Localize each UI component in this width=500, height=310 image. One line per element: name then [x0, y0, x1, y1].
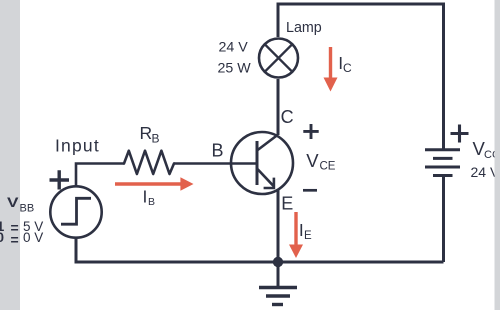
minus sign VCE: [303, 189, 317, 192]
junction node dot: [273, 257, 283, 267]
wire bottom rail: [76, 238, 444, 262]
svg-text:V: V: [7, 195, 19, 210]
right gray sidebar: [495, 0, 500, 310]
collector lead: [257, 135, 278, 151]
wire top: lamp branch to Vcc: [278, 4, 444, 150]
svg-text:I: I: [143, 186, 148, 206]
left gray sidebar: [0, 0, 20, 310]
svg-text:0: 0: [0, 229, 4, 245]
svg-text:C: C: [343, 61, 352, 75]
wire right: battery bottom to bottom rail: [442, 176, 445, 263]
current arrow IC: [329, 47, 332, 79]
svg-text:B: B: [212, 141, 224, 161]
svg-text:BB: BB: [20, 202, 35, 214]
svg-text:B: B: [152, 132, 160, 146]
resistor RB: [124, 151, 174, 174]
wire resistor to base: [174, 162, 257, 165]
svg-text:25 W: 25 W: [218, 61, 252, 77]
wire emitter to bottom rail: [277, 190, 280, 262]
current arrow IB: [115, 182, 181, 185]
wire input source to resistor: [76, 164, 124, 187]
svg-text:B: B: [148, 196, 155, 208]
ground: [277, 262, 280, 287]
base wire inside: [230, 162, 257, 165]
current arrow IE: [294, 212, 297, 246]
svg-text:Lamp: Lamp: [286, 20, 322, 36]
wire lamp to collector: [277, 79, 280, 135]
source VBB circle: [50, 186, 101, 237]
emitter lead with arrow: [257, 168, 274, 186]
svg-text:0 V: 0 V: [23, 230, 43, 245]
plus sign VCE: [303, 124, 318, 139]
svg-text:Input: Input: [55, 136, 100, 156]
battery VCC: [425, 148, 460, 151]
plus sign source: [50, 170, 70, 189]
svg-text:R: R: [140, 123, 153, 143]
svg-text:E: E: [304, 230, 312, 242]
svg-text:24 V: 24 V: [219, 40, 249, 56]
transistor Q1: [231, 132, 293, 194]
step waveform: [61, 198, 91, 224]
plus sign battery: [451, 125, 469, 143]
svg-text:CE: CE: [320, 161, 336, 173]
lamp L1: [259, 39, 298, 78]
base bar: [256, 141, 259, 185]
svg-text:C: C: [281, 107, 294, 127]
svg-text:E: E: [281, 194, 293, 214]
svg-text:V: V: [306, 150, 319, 171]
svg-text:=: =: [11, 231, 19, 247]
